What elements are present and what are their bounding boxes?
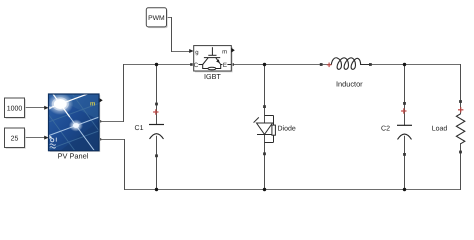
svg-text:Diode: Diode	[278, 124, 296, 132]
svg-text:C2: C2	[381, 125, 390, 132]
svg-text:E: E	[223, 62, 227, 69]
svg-text:C: C	[194, 62, 199, 69]
svg-text:C1: C1	[135, 125, 144, 132]
svg-text:g: g	[195, 50, 198, 56]
svg-text:Load: Load	[432, 124, 448, 132]
svg-text:1000: 1000	[7, 105, 23, 112]
svg-text:m: m	[222, 50, 227, 56]
svg-text:IGBT: IGBT	[204, 72, 221, 81]
svg-text:PV Panel: PV Panel	[58, 152, 89, 161]
svg-text:Inductor: Inductor	[336, 79, 363, 88]
svg-text:25: 25	[11, 135, 19, 142]
svg-text:m: m	[90, 100, 96, 107]
svg-text:PWM: PWM	[148, 15, 165, 22]
